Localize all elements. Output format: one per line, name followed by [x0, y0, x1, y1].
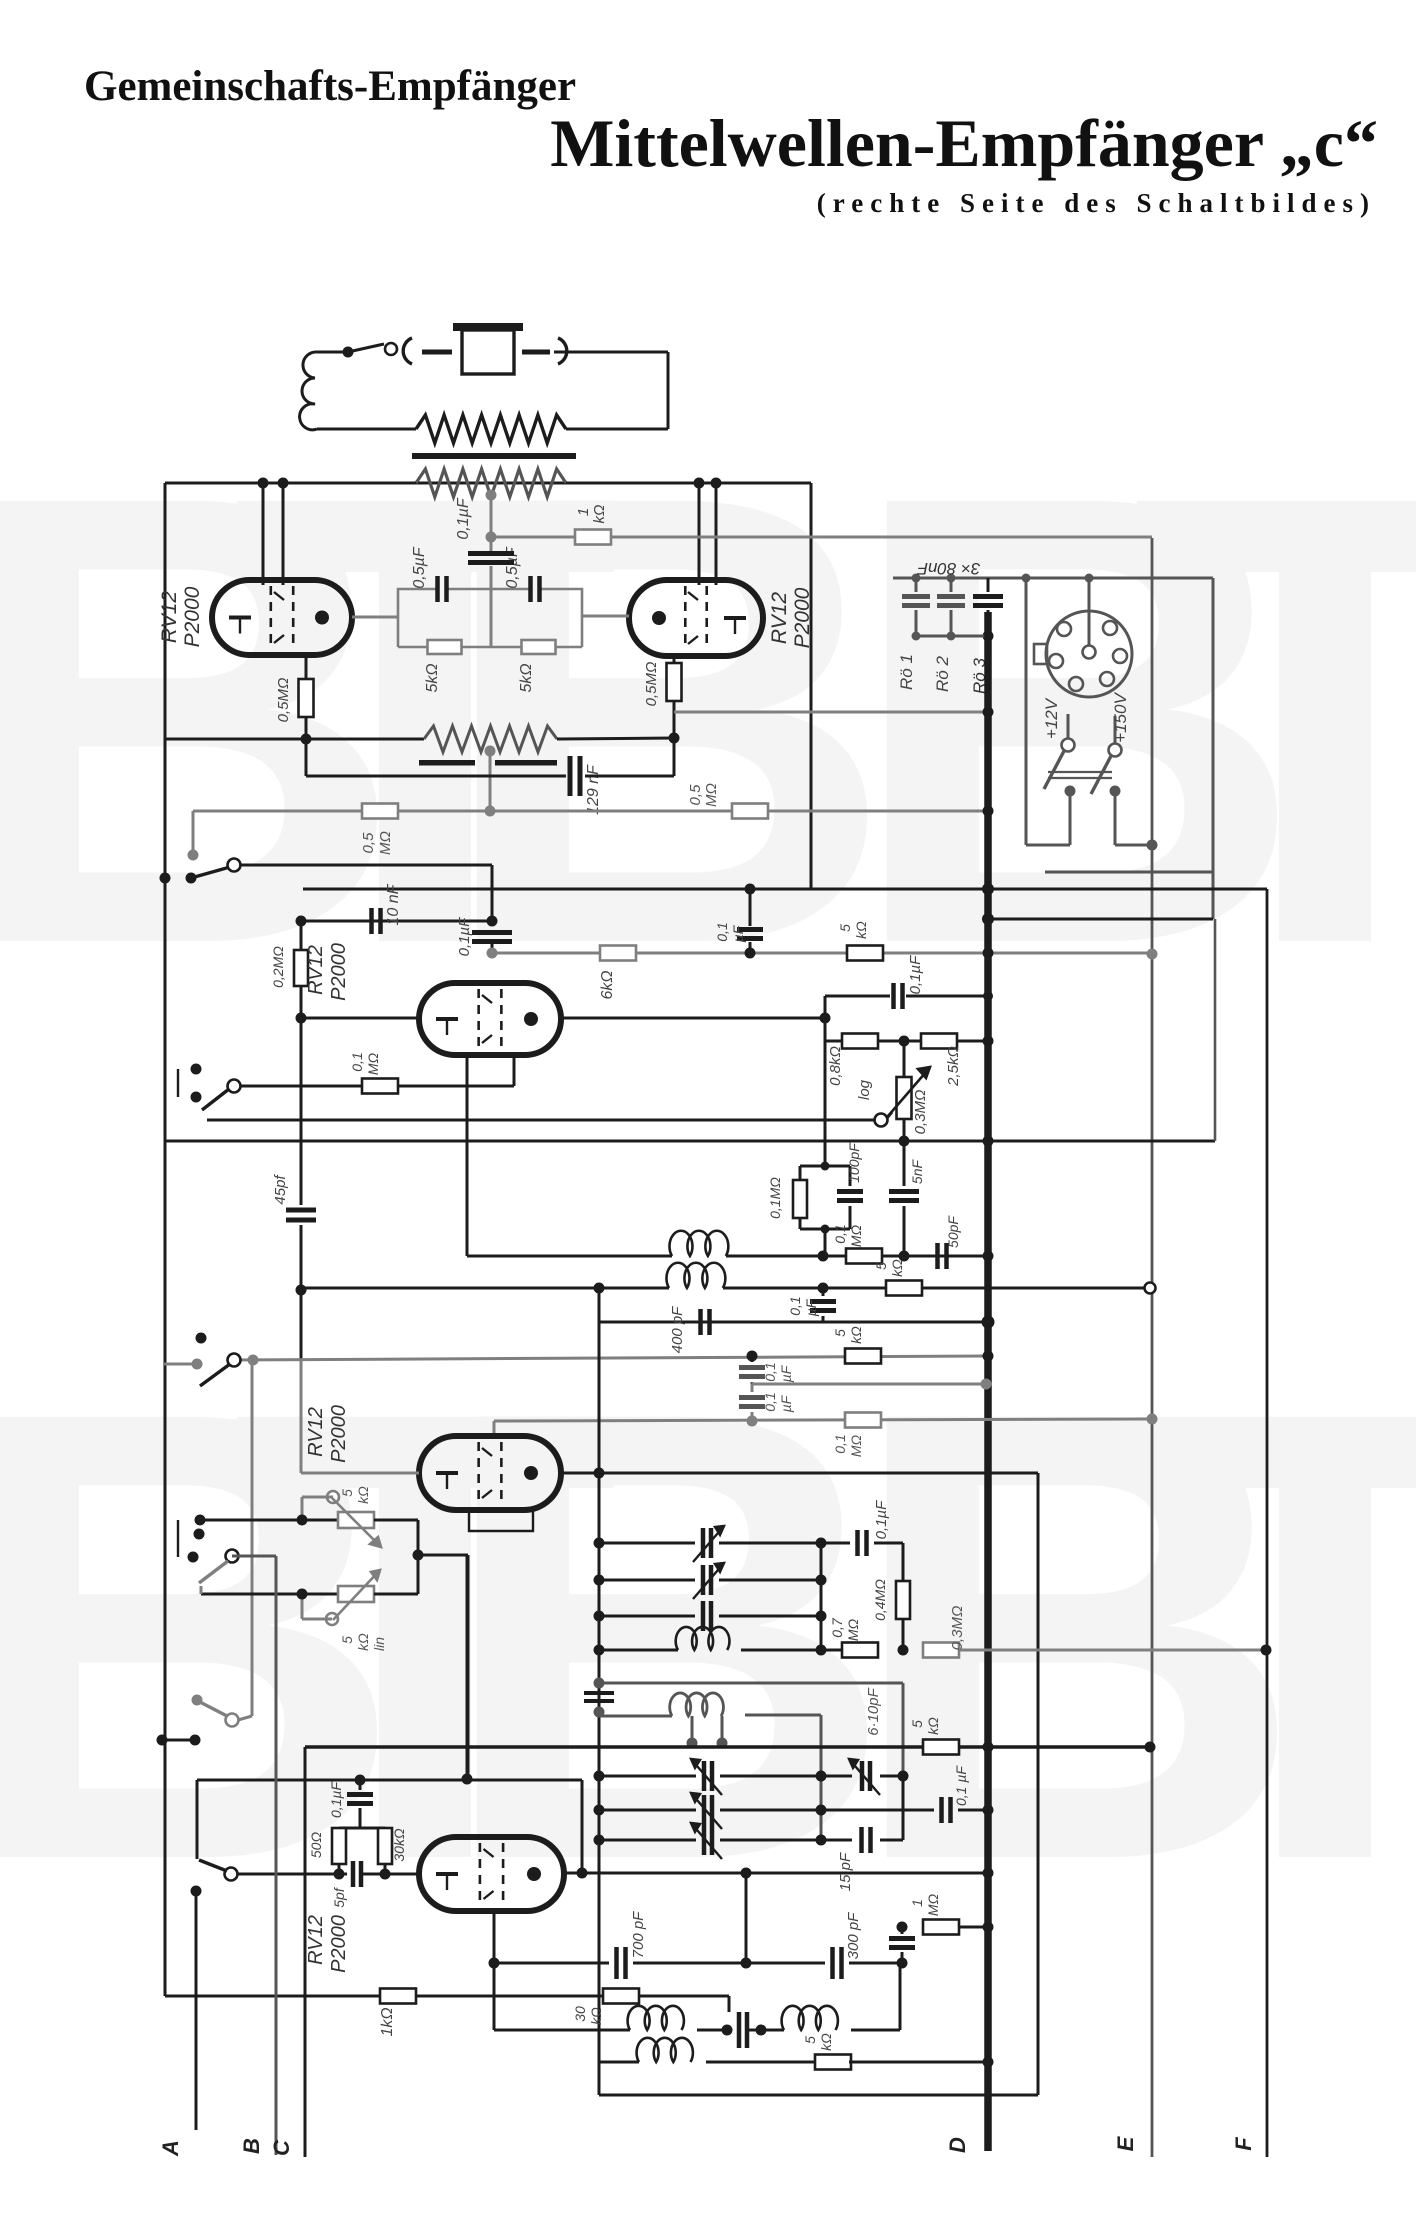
svg-text:0,3MΩ: 0,3MΩ	[949, 1606, 966, 1651]
title line 1	[84, 63, 576, 110]
svg-text:0,1: 0,1	[787, 1296, 803, 1315]
fuse box	[453, 323, 523, 374]
wire rf vert	[598, 1288, 601, 2095]
label D	[945, 2137, 970, 2153]
svg-text:5pf: 5pf	[331, 1886, 347, 1908]
label F	[1231, 2137, 1256, 2151]
wire 80nF top rail	[893, 577, 1213, 580]
resistor 0,5M avc1	[360, 804, 398, 855]
coil IF1b	[666, 1263, 725, 1288]
wire v5 cath	[489, 1911, 500, 2030]
node grid3	[296, 1013, 307, 1024]
svg-text:0,1: 0,1	[762, 1392, 778, 1411]
svg-text:MΩ: MΩ	[365, 1052, 381, 1075]
switch S2	[178, 1064, 241, 1111]
resistor 0,4M	[872, 1543, 910, 1650]
interstage core right	[495, 760, 557, 766]
wire speaker bottom	[317, 428, 416, 431]
wire secondary left	[165, 482, 416, 485]
svg-text:5: 5	[909, 1720, 925, 1728]
wire anet left	[824, 996, 827, 1041]
wire 1k row	[165, 1995, 380, 1998]
wire top mid frame	[303, 888, 1267, 891]
svg-text:50Ω: 50Ω	[308, 1832, 324, 1859]
svg-text:kΩ: kΩ	[848, 1326, 864, 1344]
label Ro1	[897, 654, 916, 690]
capacitor 0,5uF right	[504, 546, 540, 602]
capacitor 0,1uF s1	[739, 1356, 794, 1384]
wire 01uF row	[821, 1765, 994, 1823]
svg-text:1kΩ: 1kΩ	[379, 2007, 396, 2036]
transformer secondary winding	[416, 469, 566, 497]
watermark	[0, 362, 1416, 1993]
svg-text:400 pF: 400 pF	[669, 1306, 686, 1354]
wire 30k down	[380, 1864, 391, 1880]
plug contact right	[522, 338, 567, 364]
switch S3t	[163, 1333, 241, 1387]
capacitor 80nF c	[973, 578, 1003, 642]
svg-text:0,5MΩ: 0,5MΩ	[643, 662, 660, 707]
wire sec lower left	[306, 739, 566, 776]
rf row5	[594, 1759, 827, 1795]
rail F	[1266, 889, 1269, 2157]
svg-text:MΩ: MΩ	[925, 1893, 941, 1916]
wire grid3	[301, 1017, 419, 1020]
rf row1 cap	[821, 1500, 903, 1556]
svg-text:5: 5	[339, 1636, 355, 1644]
capacitor 15pF	[821, 1776, 903, 1891]
osc coil row	[494, 2006, 684, 2030]
svg-text:D: D	[945, 2137, 970, 2153]
svg-text:B: B	[434, 362, 896, 1077]
wire 700p row	[494, 1962, 609, 1965]
svg-text:µF: µF	[803, 1298, 819, 1316]
rail A	[195, 1891, 198, 2130]
label A	[158, 2140, 183, 2157]
wire pot2 row	[201, 1586, 338, 1594]
rf row4 coil	[594, 1627, 845, 1656]
label V2	[768, 587, 814, 648]
svg-text:kΩ: kΩ	[889, 1259, 905, 1277]
node pot mid	[413, 1550, 424, 1561]
node agc bus	[747, 1351, 994, 1362]
node top4	[711, 478, 722, 489]
capacitor 0,1uF anet	[894, 955, 925, 1009]
svg-text:0,1: 0,1	[349, 1052, 365, 1071]
tube V2 RV12 P2000	[629, 580, 763, 656]
resistor 0,1M det	[832, 1224, 882, 1263]
svg-text:RV12: RV12	[305, 1407, 327, 1457]
svg-text:µF: µF	[730, 924, 746, 942]
svg-text:0,1: 0,1	[714, 922, 730, 941]
svg-text:0,3MΩ: 0,3MΩ	[912, 1090, 929, 1135]
wire pot1 row	[200, 1519, 338, 1522]
switch +150V	[1091, 716, 1122, 794]
pot 5k a	[297, 1486, 382, 1547]
title line 2	[550, 105, 1378, 181]
wire pot tap	[899, 1119, 910, 1147]
svg-text:5kΩ: 5kΩ	[424, 663, 441, 692]
node tap2	[485, 746, 496, 812]
svg-text:0,5: 0,5	[687, 784, 704, 806]
capacitor 100pF rc	[837, 1142, 863, 1229]
title line 3	[817, 188, 1376, 218]
svg-text:µF: µF	[778, 1394, 794, 1412]
svg-text:P2000: P2000	[328, 1405, 350, 1463]
wire det row	[467, 1255, 672, 1258]
svg-text:P2000: P2000	[791, 587, 814, 648]
resistor 5k osc	[802, 2033, 851, 2070]
wire v3 cath down	[466, 1055, 469, 1256]
connector socket Roe	[1034, 611, 1132, 697]
osc coil 3	[599, 2038, 817, 2062]
switch S7	[191, 1860, 238, 1897]
resistor 2,5k	[921, 1034, 962, 1087]
wire top frame	[165, 482, 811, 485]
capacitor 5pF	[331, 1861, 419, 1908]
node g1	[296, 916, 498, 927]
wire bus to enclosure	[988, 918, 1213, 921]
wire speaker top	[317, 351, 346, 354]
osc pad cap	[697, 2012, 784, 2048]
wire +12V return	[1022, 574, 1076, 846]
node bus889	[982, 883, 994, 895]
resistor 0,7M	[829, 1617, 878, 1657]
node top3	[694, 478, 705, 489]
resistor speaker winding	[416, 415, 566, 443]
svg-text:0,1MΩ: 0,1MΩ	[767, 1177, 783, 1219]
resistor 5k hf	[909, 1717, 959, 1755]
switch S6	[192, 1695, 253, 1727]
switch speaker	[343, 343, 398, 358]
wire grid4 line	[301, 1360, 419, 1473]
resistor 6k	[599, 946, 636, 1000]
capacitor 0,1uF if	[787, 1288, 836, 1322]
resistor 5k right	[518, 640, 556, 693]
capacitor 0,1uF center	[455, 497, 514, 562]
wire anode4 drop	[1037, 1473, 1040, 2095]
capacitor 400pF	[669, 1306, 710, 1354]
rail mid right	[1214, 919, 1217, 1141]
wire 400p row	[599, 1288, 995, 1329]
wire 1k to E rail	[611, 536, 1152, 539]
svg-text:µF: µF	[778, 1364, 794, 1382]
node b2	[669, 733, 680, 744]
wire socket feed	[1085, 574, 1094, 647]
label Ro2	[933, 656, 952, 692]
tube V1 RV12 P2000	[212, 580, 352, 655]
wire anode top tube2 b	[715, 483, 718, 585]
svg-text:kΩ: kΩ	[355, 1633, 371, 1651]
svg-text:3× 80nF: 3× 80nF	[916, 559, 980, 578]
wire screen row	[492, 952, 1152, 955]
rail C	[304, 1747, 307, 2157]
node rf4	[898, 1645, 909, 1656]
capacitor 300pF	[833, 1912, 863, 1979]
svg-text:(rechte Seite des Schaltbildes: (rechte Seite des Schaltbildes)	[817, 188, 1376, 218]
svg-text:B: B	[239, 2138, 264, 2154]
svg-text:+150V: +150V	[1111, 692, 1130, 743]
resistor 0,1M rc	[767, 1166, 807, 1229]
svg-text:0,5: 0,5	[360, 832, 377, 854]
wire grid4 row	[494, 1416, 1152, 1427]
svg-text:5: 5	[802, 2036, 818, 2044]
svg-text:700 pF: 700 pF	[630, 1911, 647, 1959]
svg-text:T: T	[1130, 1278, 1416, 1993]
resistor 0,5M V2	[643, 656, 682, 738]
transformer core bar	[412, 453, 576, 459]
wire 700p row b	[633, 1873, 752, 1969]
wire anet top	[825, 995, 988, 998]
osc coil 2	[782, 1963, 900, 2030]
switch S5	[178, 1515, 239, 1584]
svg-text:0,5µF: 0,5µF	[411, 546, 428, 588]
svg-text:0,2MΩ: 0,2MΩ	[270, 946, 286, 988]
wire rf right vert	[816, 1543, 827, 1656]
svg-text:50pF: 50pF	[945, 1215, 961, 1248]
padder cap	[584, 1678, 614, 1718]
svg-text:kΩ: kΩ	[588, 2007, 604, 2025]
svg-text:5nF: 5nF	[909, 1158, 925, 1184]
wire grid4 drop	[493, 1421, 496, 1438]
resistor 0,1M grid4	[832, 1413, 881, 1458]
label +12V	[1042, 697, 1061, 739]
wire v5 top row	[197, 1555, 582, 1859]
svg-text:kΩ: kΩ	[925, 1717, 941, 1735]
node anet	[899, 991, 994, 1047]
wire 1M bus	[959, 1922, 994, 1933]
wire avc stub	[188, 811, 199, 861]
wire pot row	[207, 1119, 876, 1122]
label B	[239, 2138, 264, 2154]
wire anode top tube2 a	[698, 483, 701, 585]
label +150V	[1111, 692, 1130, 743]
capacitor 129nF	[570, 756, 602, 815]
svg-text:RV12: RV12	[305, 945, 327, 995]
svg-text:5: 5	[873, 1262, 889, 1270]
rail B	[232, 1556, 276, 2155]
trimmer 6-10pF	[821, 1759, 909, 1795]
wire pot2 right	[374, 1593, 418, 1596]
svg-text:6kΩ: 6kΩ	[599, 970, 616, 999]
wire if row	[296, 1283, 670, 1296]
label V4	[305, 1405, 350, 1463]
wire agc row	[234, 1355, 988, 1366]
rf row7	[594, 1823, 827, 1859]
svg-text:5: 5	[837, 924, 853, 932]
wire right frame box1	[810, 483, 813, 889]
label Ro3	[970, 658, 989, 694]
svg-text:MΩ: MΩ	[845, 1618, 861, 1641]
svg-text:5kΩ: 5kΩ	[518, 663, 535, 692]
svg-text:30: 30	[572, 2006, 588, 2022]
wire screen line	[674, 711, 988, 714]
svg-text:P2000: P2000	[328, 1915, 350, 1973]
svg-text:10 nF: 10 nF	[385, 883, 402, 925]
label 6-10pF	[865, 1687, 882, 1735]
wire 1k row b	[416, 1995, 604, 1998]
svg-text:RV12: RV12	[768, 592, 791, 644]
node A stub	[157, 1735, 201, 1746]
node top1	[258, 478, 269, 489]
node bus919	[982, 913, 994, 925]
node top2	[278, 478, 289, 489]
svg-text:300 pF: 300 pF	[845, 1912, 862, 1960]
svg-text:0,1: 0,1	[832, 1434, 848, 1453]
svg-text:0,8kΩ: 0,8kΩ	[827, 1046, 844, 1086]
svg-text:F: F	[1231, 2137, 1256, 2151]
svg-text:0,1µF: 0,1µF	[873, 1500, 890, 1539]
wire osc bottom	[599, 2062, 1038, 2095]
capacitor 0,1uF drop	[714, 884, 763, 959]
wire rc link	[824, 1041, 827, 1166]
rf row2	[594, 1563, 827, 1599]
coil IF1a	[669, 1231, 728, 1256]
wire hf bus row	[305, 1742, 1156, 1753]
node e1419	[1147, 1414, 1158, 1425]
resistor 0,5M avc2	[687, 783, 768, 818]
switch +12V	[1044, 714, 1075, 789]
svg-text:MΩ: MΩ	[848, 1224, 864, 1247]
capacitor osc grid	[889, 1922, 915, 1964]
capacitor 45pF	[272, 1018, 316, 1473]
svg-text:30kΩ: 30kΩ	[391, 1828, 407, 1862]
node if	[818, 1283, 829, 1294]
svg-text:P2000: P2000	[181, 586, 204, 647]
svg-text:5: 5	[832, 1329, 848, 1337]
bus D rail	[984, 612, 992, 2151]
svg-text:MΩ: MΩ	[848, 1434, 864, 1457]
potentiometer 0,3M log	[856, 1041, 930, 1134]
svg-text:1: 1	[909, 1899, 925, 1907]
wire 300p row b	[849, 1958, 908, 1969]
wire det row b	[726, 1255, 988, 1258]
resistor 5k agc	[832, 1326, 881, 1364]
rf row6	[594, 1793, 827, 1829]
resistor 50	[308, 1828, 346, 1864]
wire bias right	[557, 738, 674, 739]
wire center cap up	[490, 537, 493, 551]
svg-text:1: 1	[575, 508, 592, 516]
capacitor 10nF	[372, 883, 403, 934]
node secondary tap	[486, 490, 497, 538]
enclosure right	[1045, 578, 1213, 919]
wire bias line	[165, 738, 424, 741]
svg-text:0,1: 0,1	[832, 1224, 848, 1243]
svg-text:MΩ: MΩ	[377, 831, 394, 855]
svg-text:0,1µF: 0,1µF	[456, 917, 473, 956]
wire s3t drop	[251, 1360, 254, 1712]
svg-text:P2000: P2000	[328, 943, 350, 1001]
label C	[269, 2139, 294, 2156]
capacitor 5nF	[889, 1141, 925, 1256]
rf row1	[594, 1526, 827, 1562]
svg-text:kΩ: kΩ	[818, 2033, 834, 2051]
network box left cell	[398, 589, 491, 647]
wire anet bottom	[825, 1040, 988, 1043]
svg-text:C: C	[269, 2139, 294, 2156]
svg-text:0,1 µF: 0,1 µF	[953, 1765, 969, 1806]
svg-text:+12V: +12V	[1042, 697, 1061, 739]
wire v5 top right	[577, 1780, 588, 1879]
resistor 5k if	[873, 1259, 922, 1296]
capacitor 0,5uF left	[411, 546, 447, 602]
node screen bus	[983, 707, 994, 718]
svg-text:100pF: 100pF	[846, 1142, 862, 1183]
svg-text:2,5kΩ: 2,5kΩ	[945, 1046, 962, 1087]
svg-text:kΩ: kΩ	[853, 921, 869, 939]
resistor 0,2M	[270, 921, 308, 1018]
resistor 0,1M S2	[349, 1052, 398, 1093]
label V3	[305, 943, 350, 1001]
wire 80nF bottom rail	[916, 635, 988, 638]
resistor 0,5M V1	[275, 655, 314, 739]
wire center cap down	[490, 566, 493, 589]
wire anode5	[564, 1868, 994, 1879]
resistor 1M	[909, 1893, 959, 1934]
wire g cap down	[487, 942, 498, 959]
svg-text:Mittelwellen-Empfänger „c“: Mittelwellen-Empfänger „c“	[550, 105, 1378, 181]
wire speaker right	[554, 352, 668, 429]
wire 300p row	[746, 1962, 825, 1965]
pot 5k lin	[297, 1570, 388, 1651]
wire left frame	[164, 483, 167, 1996]
capacitor 80nF a	[902, 574, 930, 641]
wire anode V2 to network	[582, 615, 629, 618]
rail E	[1151, 538, 1154, 2157]
wire secondary right	[566, 482, 811, 485]
svg-text:RV12: RV12	[305, 1915, 327, 1965]
wire +150V return	[1110, 786, 1158, 851]
wire 50 down	[334, 1864, 345, 1880]
wire cathode3 drop	[513, 1055, 516, 1086]
tube V3 RV12 P2000	[419, 983, 561, 1055]
node e953	[983, 948, 1158, 960]
wire center divider	[490, 589, 493, 647]
v5 grid box top	[339, 1827, 385, 1830]
svg-text:RV12: RV12	[158, 591, 181, 643]
tube V4 RV12 P2000	[419, 1436, 561, 1510]
svg-text:E: E	[1113, 2135, 1138, 2151]
svg-text:kΩ: kΩ	[591, 505, 608, 524]
wire pot1 right	[374, 1520, 418, 1594]
resistor 0,3M gray	[923, 1606, 966, 1658]
node avc tap	[485, 806, 496, 817]
svg-text:45pf: 45pf	[272, 1174, 289, 1205]
svg-text:log: log	[856, 1079, 873, 1100]
resistor 30k osc	[572, 1989, 639, 2025]
plug contact left	[403, 338, 452, 364]
capacitor 700pF	[617, 1911, 648, 1979]
capacitor 0,1uF g	[456, 917, 512, 956]
node det	[818, 1251, 994, 1262]
node b1	[301, 734, 312, 745]
resistor 5k screen	[837, 921, 883, 961]
wire anode top tube1 b	[282, 483, 285, 585]
svg-text:129 nF: 129 nF	[585, 764, 602, 815]
svg-text:0,1: 0,1	[762, 1362, 778, 1381]
svg-text:Gemeinschafts-Empfänger: Gemeinschafts-Empfänger	[84, 63, 576, 110]
label 3x80nF	[916, 559, 980, 578]
wire anode3	[561, 1013, 831, 1024]
interstage primary winding	[424, 726, 557, 752]
node k1	[486, 532, 497, 543]
wire grid line 1k	[491, 536, 574, 539]
svg-text:0,1µF: 0,1µF	[455, 497, 472, 539]
capacitor 80nF b	[937, 574, 965, 641]
label V1	[158, 586, 204, 647]
wire rf row4 right	[959, 1645, 1272, 1656]
